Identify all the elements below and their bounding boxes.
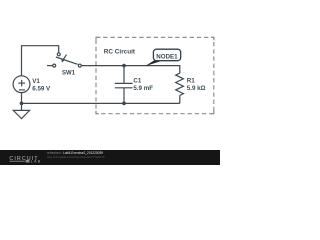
- svg-text:5.9 kΩ: 5.9 kΩ: [187, 85, 206, 92]
- svg-text:http://circuitlab.com/c6wm2qm5: http://circuitlab.com/c6wm2qm5s7/7hg5c74: [47, 155, 105, 159]
- svg-text:5.9 mF: 5.9 mF: [133, 85, 153, 92]
- svg-text:R1: R1: [187, 77, 195, 84]
- svg-text:C1: C1: [133, 77, 141, 84]
- svg-text:SW1: SW1: [62, 71, 76, 77]
- svg-text:V1: V1: [32, 78, 40, 85]
- svg-text:RC Circuit: RC Circuit: [104, 49, 136, 56]
- svg-text:LAB: LAB: [31, 160, 42, 164]
- svg-text:6.59 V: 6.59 V: [32, 85, 51, 92]
- svg-text:NODE1: NODE1: [156, 53, 178, 60]
